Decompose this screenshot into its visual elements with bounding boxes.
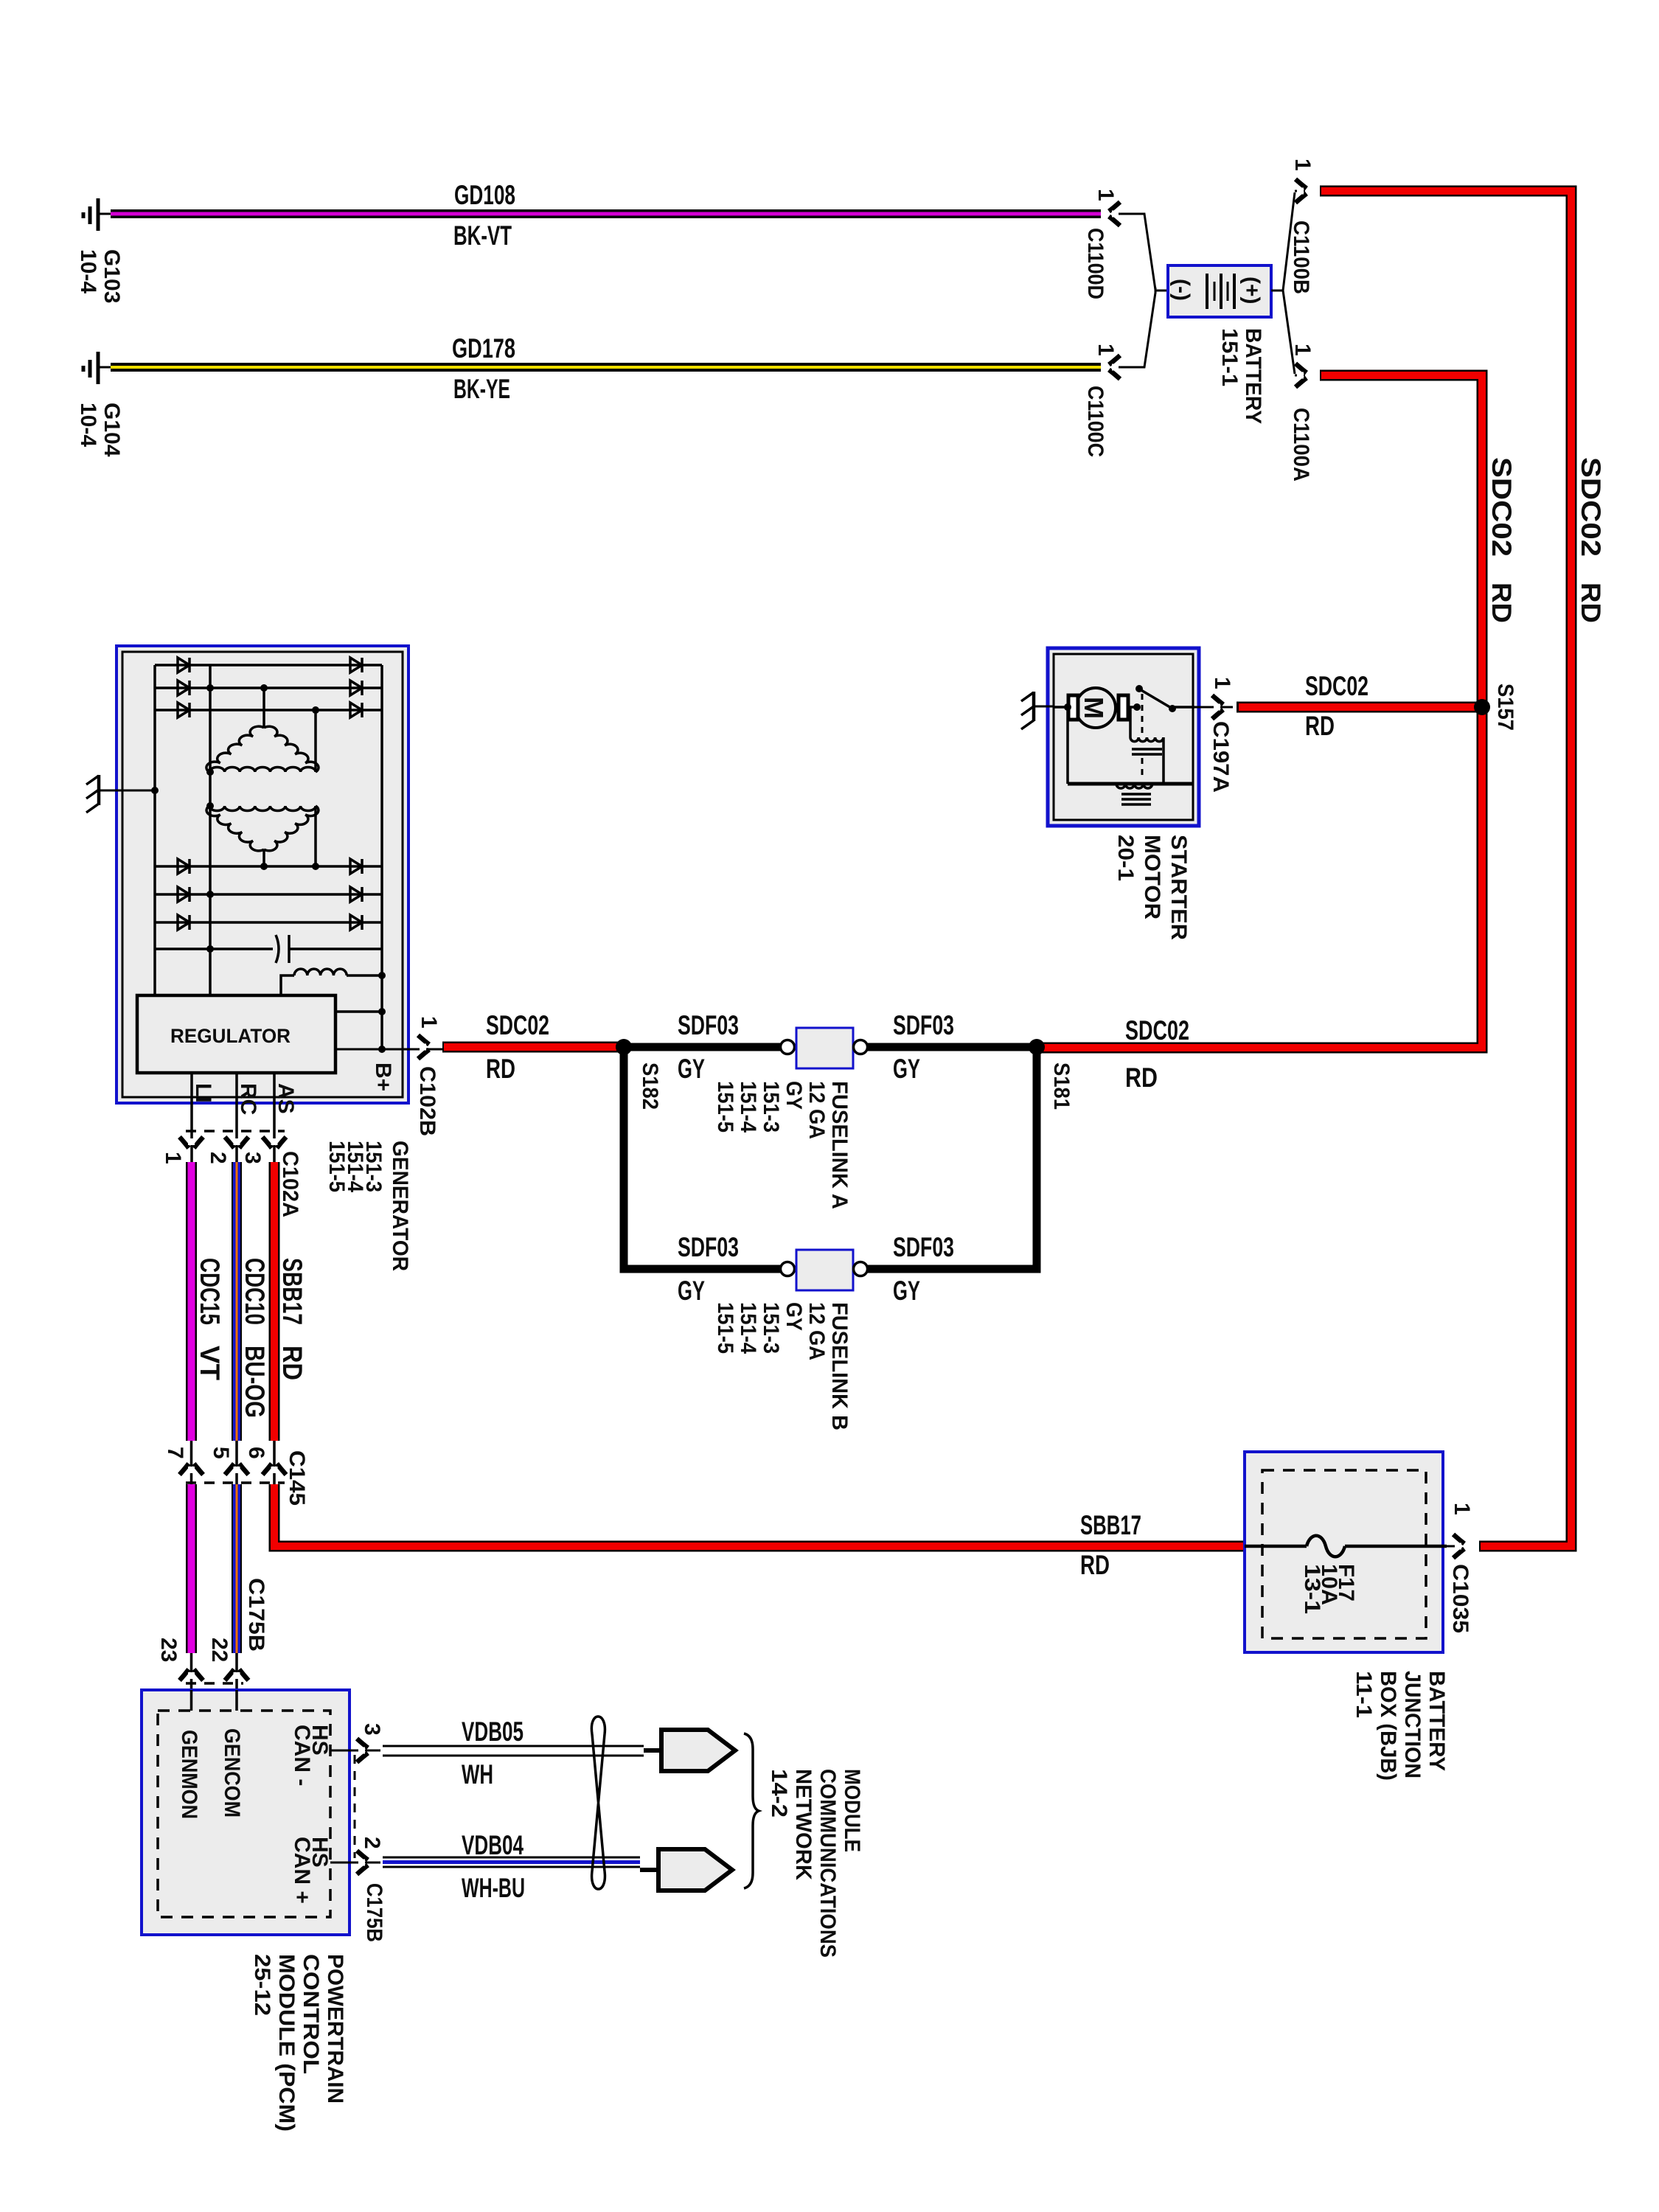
svg-text:C102B: C102B — [415, 1066, 439, 1136]
svg-text:S182: S182 — [638, 1062, 662, 1110]
svg-text:B+: B+ — [371, 1062, 395, 1091]
connector C197A arrow — [1212, 695, 1223, 719]
wire CDC10 BU-OG C145 to pin22 — [232, 1484, 242, 1653]
svg-text:GD178: GD178 — [452, 333, 515, 364]
svg-text:14-2: 14-2 — [767, 1769, 791, 1818]
battery junction box label — [1352, 1671, 1449, 1781]
connector C175B arrow pin22 — [225, 1669, 248, 1680]
connector C102B arrow — [418, 1035, 429, 1059]
diode D8 — [178, 887, 189, 902]
svg-text:G104: G104 — [100, 403, 124, 457]
connector C145 arrow pin7 — [180, 1464, 204, 1475]
ground G103 label — [76, 249, 124, 303]
off-page terminator VDB05 — [644, 1730, 735, 1771]
ground G103 — [83, 198, 112, 231]
svg-text:MODULE (PCM): MODULE (PCM) — [274, 1954, 299, 2132]
connector C102A dashed line — [186, 1130, 285, 1133]
svg-text:NETWORK: NETWORK — [791, 1769, 815, 1880]
wire SDC02 RD label (outer vertical) — [1576, 457, 1606, 623]
wire starter to C197A — [1194, 706, 1233, 709]
svg-text:REGULATOR: REGULATOR — [170, 1025, 291, 1047]
generator rectifier row 6 — [155, 921, 382, 924]
svg-text:C197A: C197A — [1208, 721, 1233, 793]
svg-text:SDC02: SDC02 — [1486, 457, 1517, 557]
svg-text:12 GA: 12 GA — [804, 1081, 829, 1139]
wire VDB05 WH — [383, 1746, 644, 1756]
svg-text:2: 2 — [360, 1837, 384, 1849]
off-page terminator VDB04 — [640, 1849, 732, 1891]
stator delta winding — [206, 684, 319, 776]
svg-text:1: 1 — [1210, 677, 1234, 689]
wire GD178 BK-YE — [111, 363, 1101, 372]
connector C1035 arrow — [1453, 1534, 1464, 1558]
svg-text:11-1: 11-1 — [1352, 1671, 1376, 1718]
wire SBB17 RD pin3 to C145 — [269, 1162, 280, 1441]
svg-text:GENCOM: GENCOM — [220, 1728, 244, 1818]
svg-text:1: 1 — [161, 1152, 185, 1164]
PCM internal leads — [192, 1690, 237, 1711]
svg-text:2: 2 — [206, 1152, 230, 1164]
svg-text:151-5: 151-5 — [324, 1141, 349, 1192]
node S182 — [616, 1039, 632, 1055]
svg-text:WH: WH — [462, 1759, 493, 1790]
svg-text:GY: GY — [782, 1081, 806, 1110]
wire SDF03 GY fuselink A to S181 — [868, 1043, 1037, 1051]
svg-text:CDC15: CDC15 — [195, 1258, 225, 1325]
svg-text:5: 5 — [209, 1447, 233, 1459]
svg-text:C145: C145 — [285, 1450, 309, 1506]
connector C175B dashed line — [186, 1682, 243, 1685]
svg-text:12 GA: 12 GA — [804, 1302, 829, 1360]
svg-text:MOTOR: MOTOR — [1140, 835, 1164, 919]
svg-text:BK-YE: BK-YE — [453, 374, 510, 404]
connector C145 dashed line — [186, 1481, 285, 1484]
connector C1100A arrow — [1295, 364, 1307, 387]
svg-text:RD: RD — [1576, 582, 1606, 623]
svg-text:BU-OG: BU-OG — [240, 1346, 270, 1418]
svg-text:3: 3 — [360, 1723, 384, 1736]
pin label HS CAN - — [290, 1725, 332, 1786]
svg-text:BOX (BJB): BOX (BJB) — [1376, 1671, 1400, 1781]
svg-text:C175B: C175B — [362, 1883, 386, 1942]
svg-text:SDC02: SDC02 — [1305, 671, 1368, 701]
svg-text:151-4: 151-4 — [736, 1081, 760, 1133]
svg-text:10-4: 10-4 — [76, 249, 100, 293]
generator internal buses — [155, 665, 382, 1049]
svg-text:151-4: 151-4 — [736, 1302, 760, 1354]
brace — [744, 1733, 759, 1888]
svg-text:C1100C: C1100C — [1083, 386, 1107, 457]
battery 151-1 — [1168, 265, 1271, 317]
svg-text:BK-VT: BK-VT — [453, 220, 512, 251]
diode D6 — [350, 703, 362, 717]
wire CDC10 BU-OG pin2 to C145 — [232, 1162, 242, 1441]
starter motor label — [1113, 835, 1191, 940]
svg-text:GY: GY — [893, 1276, 920, 1306]
connector C1100D arrow — [1109, 202, 1120, 226]
svg-text:FUSELINK A: FUSELINK A — [827, 1081, 852, 1209]
svg-text:25-12: 25-12 — [250, 1954, 274, 2016]
starter motor internals — [1054, 685, 1194, 804]
svg-text:10-4: 10-4 — [76, 403, 100, 447]
generator rectifier row 5 — [155, 893, 382, 896]
svg-text:LI: LI — [191, 1083, 215, 1103]
wire CDC15 VT C145 to pin23 — [186, 1484, 197, 1653]
svg-text:MODULE: MODULE — [840, 1769, 864, 1852]
wire SDC02 RD from C1100B down right side — [1320, 191, 1571, 1546]
diode D7 — [178, 859, 189, 874]
connector C145 arrow pin6 — [262, 1464, 286, 1475]
svg-text:VT: VT — [195, 1346, 225, 1380]
svg-text:CAN +: CAN + — [290, 1837, 314, 1904]
svg-text:RD: RD — [1125, 1062, 1158, 1093]
generator rectifier row 3 — [155, 709, 382, 712]
svg-text:GY: GY — [893, 1054, 920, 1084]
field inductor — [281, 969, 386, 995]
generator rectifier row 4 — [155, 865, 382, 868]
wire battery positive leads — [1271, 191, 1305, 375]
diode D10 — [350, 859, 362, 874]
svg-text:6: 6 — [244, 1447, 268, 1459]
connector C102A arrow pin1 — [180, 1137, 204, 1148]
svg-text:CAN -: CAN - — [290, 1725, 314, 1786]
wire CDC15 VT pin1 to C145 — [186, 1162, 197, 1441]
wire SDC02 RD starter to S157 — [1237, 702, 1478, 713]
generator box — [116, 646, 408, 1103]
wire fuselink B to S181 drop — [868, 1047, 1037, 1269]
diode D12 — [350, 915, 362, 930]
svg-text:1: 1 — [1450, 1503, 1474, 1515]
C175B lead-throughs — [192, 1653, 237, 1711]
fuselink B — [781, 1250, 868, 1290]
svg-text:C1100D: C1100D — [1083, 228, 1107, 299]
svg-text:BATTERY: BATTERY — [1241, 328, 1265, 424]
svg-text:151-1: 151-1 — [1217, 328, 1242, 386]
diode D5 — [350, 681, 362, 695]
svg-text:1: 1 — [1093, 189, 1118, 201]
svg-text:COMMUNICATIONS: COMMUNICATIONS — [815, 1769, 840, 1958]
connector C1100B arrow — [1295, 179, 1307, 203]
pin 3 stub — [330, 1750, 380, 1752]
svg-text:C1100B: C1100B — [1289, 220, 1313, 294]
powertrain control module box — [142, 1690, 349, 1935]
svg-text:WH-BU: WH-BU — [462, 1873, 525, 1903]
svg-text:1: 1 — [1093, 344, 1118, 356]
wire SBB17 RD C145 to battery junction box — [274, 1484, 1245, 1546]
C145 connector lead-throughs — [192, 1441, 275, 1484]
svg-text:G103: G103 — [100, 249, 124, 303]
svg-text:C1100A: C1100A — [1289, 408, 1313, 481]
svg-text:151-3: 151-3 — [759, 1302, 783, 1354]
svg-text:M: M — [1079, 697, 1109, 719]
generator rectifier row 1 — [155, 664, 382, 667]
diode D2 — [178, 681, 189, 695]
generator label — [324, 1141, 412, 1271]
svg-text:GY: GY — [678, 1276, 705, 1306]
fuselink A label — [713, 1081, 852, 1209]
wire SDC02 RD from C1100A down to S181 — [1040, 375, 1482, 1048]
svg-text:GD108: GD108 — [454, 180, 515, 210]
diode D11 — [350, 887, 362, 902]
connector C175B arrow pin23 — [180, 1669, 204, 1680]
svg-text:13-1: 13-1 — [1300, 1564, 1324, 1614]
diode D3 — [178, 703, 189, 717]
starter motor box — [1048, 648, 1199, 826]
connector C145 arrow pin5 — [225, 1464, 248, 1475]
wire battery negative leads — [1114, 214, 1168, 367]
svg-text:RD: RD — [1080, 1550, 1110, 1580]
svg-text:GY: GY — [678, 1054, 705, 1084]
node S157 — [1474, 699, 1490, 715]
diode D4 — [350, 658, 362, 672]
svg-text:VDB04: VDB04 — [462, 1830, 524, 1860]
fuselink B label — [713, 1302, 852, 1430]
wire VDB04 WH-BU — [383, 1857, 640, 1867]
wire SDC02 RD label (inner vertical) — [1486, 457, 1517, 623]
svg-text:SBB17: SBB17 — [277, 1258, 307, 1325]
wire SDC02 RD C102B to S182 — [442, 1042, 624, 1053]
B+ output line — [335, 1046, 442, 1053]
svg-text:1: 1 — [1290, 159, 1315, 171]
capacitor row — [155, 684, 382, 963]
svg-text:CONTROL: CONTROL — [299, 1954, 323, 2074]
svg-text:SDC02: SDC02 — [1125, 1015, 1189, 1046]
svg-text:3: 3 — [240, 1152, 265, 1164]
svg-text:CDC10: CDC10 — [240, 1258, 270, 1325]
svg-text:RD: RD — [486, 1054, 515, 1084]
svg-text:(+): (+) — [1239, 276, 1264, 305]
wire SDF03 GY S182 to fuselink A — [624, 1043, 780, 1051]
svg-text:SBB17: SBB17 — [1080, 1510, 1141, 1540]
svg-text:20-1: 20-1 — [1113, 835, 1138, 881]
svg-text:S181: S181 — [1049, 1062, 1074, 1110]
svg-text:GENERATOR: GENERATOR — [388, 1141, 412, 1271]
battery junction box — [1245, 1452, 1443, 1652]
ground G104 label — [76, 403, 124, 457]
fuse F17 10A — [1245, 1536, 1457, 1557]
svg-text:POWERTRAIN: POWERTRAIN — [323, 1954, 347, 2104]
svg-text:RC: RC — [236, 1083, 260, 1115]
svg-text:7: 7 — [163, 1447, 187, 1459]
battery label — [1217, 328, 1265, 424]
svg-text:RD: RD — [1305, 711, 1335, 741]
svg-text:FUSELINK B: FUSELINK B — [827, 1302, 852, 1430]
svg-text:C1035: C1035 — [1448, 1564, 1472, 1633]
connector C102A arrow pin3 — [262, 1137, 286, 1148]
svg-text:VDB05: VDB05 — [462, 1717, 524, 1747]
svg-text:BATTERY: BATTERY — [1425, 1671, 1449, 1771]
wire GD108 BK-VT — [111, 209, 1101, 218]
svg-text:(-): (-) — [1169, 279, 1194, 301]
svg-text:23: 23 — [156, 1638, 181, 1662]
connector C175B arrow pin3 — [357, 1739, 368, 1762]
svg-text:151-5: 151-5 — [713, 1302, 737, 1354]
connector C1100C arrow — [1109, 355, 1120, 379]
svg-text:STARTER: STARTER — [1166, 835, 1191, 940]
connector C175B arrow pin2 — [357, 1851, 368, 1874]
svg-text:S157: S157 — [1493, 684, 1517, 731]
svg-text:RD: RD — [277, 1346, 307, 1380]
generator rectifier row 2 — [155, 686, 382, 689]
svg-text:1: 1 — [417, 1016, 441, 1029]
ground at starter motor — [1021, 692, 1054, 729]
svg-text:SDF03: SDF03 — [893, 1232, 954, 1262]
fuse F17 label — [1300, 1564, 1358, 1614]
svg-text:C175B: C175B — [244, 1578, 268, 1652]
svg-text:22: 22 — [207, 1638, 232, 1662]
module communications network label — [767, 1769, 864, 1958]
regulator to bus connection — [335, 1008, 386, 1015]
svg-text:SDF03: SDF03 — [678, 1010, 739, 1040]
svg-text:SDC02: SDC02 — [486, 1010, 549, 1040]
svg-text:C102A: C102A — [278, 1151, 302, 1217]
ground at generator — [86, 775, 159, 813]
PCM label — [250, 1954, 347, 2132]
twisted pair symbol — [591, 1717, 605, 1889]
svg-text:GENMON: GENMON — [177, 1730, 201, 1819]
svg-text:151-3: 151-3 — [759, 1081, 783, 1133]
connector C175B dashed line at PCM — [354, 1755, 356, 1858]
regulator pins LI RC AS — [192, 1073, 274, 1164]
wire S182 drop to fuselink B row — [624, 1047, 780, 1269]
stator wye winding — [206, 802, 319, 870]
regulator U1 — [137, 995, 335, 1073]
svg-text:GY: GY — [782, 1302, 806, 1331]
svg-text:RD: RD — [1486, 582, 1517, 623]
svg-text:SDC02: SDC02 — [1576, 457, 1606, 557]
svg-text:AS: AS — [274, 1083, 298, 1114]
svg-text:SDF03: SDF03 — [893, 1010, 954, 1040]
svg-text:151-5: 151-5 — [713, 1081, 737, 1133]
pin label HS CAN + — [290, 1837, 332, 1904]
diode D9 — [178, 915, 189, 930]
diode D1 — [178, 658, 189, 672]
ground G104 — [83, 352, 112, 384]
node S181 — [1029, 1039, 1045, 1055]
svg-text:JUNCTION: JUNCTION — [1400, 1671, 1425, 1778]
fuselink A — [781, 1028, 868, 1068]
svg-text:1: 1 — [1290, 344, 1315, 356]
connector C102A arrow pin2 — [225, 1137, 248, 1148]
svg-text:SDF03: SDF03 — [678, 1232, 739, 1262]
pin 2 stub — [330, 1862, 380, 1864]
